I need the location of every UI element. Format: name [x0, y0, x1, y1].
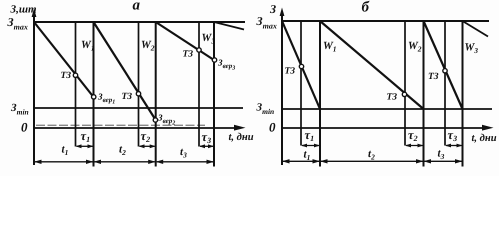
svg-text:0: 0 — [21, 120, 28, 135]
З max level line (panel b) — [282, 20, 489, 22]
t1 dimension arrow (panel a) — [35, 161, 93, 163]
vertical line 2a order point (panel a) — [138, 22, 140, 147]
tau2 dimension arrow (panel a) — [140, 145, 155, 147]
З max level line (panel a) — [34, 21, 245, 23]
consumption diagonal 3 (panel a) — [156, 22, 214, 60]
vertical line 3b delivery jump W3 (panel b) — [462, 21, 464, 167]
node Звер2 circle (panel a) — [153, 118, 157, 122]
З min level line (panel b) — [282, 108, 492, 110]
svg-text:ТЗ: ТЗ — [122, 92, 133, 102]
node Звер1 circle (panel a) — [92, 95, 96, 99]
vertical line 1b delivery jump W1 (panel a) — [93, 22, 95, 167]
tau1 dimension arrow (panel a) — [77, 145, 93, 147]
svg-text:ТЗ: ТЗ — [285, 67, 296, 77]
y-axis arrowhead (panel b) — [280, 8, 285, 17]
x-axis scan doubling dashed line (panel a) — [36, 124, 205, 126]
consumption diagonal 2 (panel b) — [320, 21, 424, 109]
svg-text:б: б — [362, 0, 370, 16]
t2 dimension arrow (panel b) — [321, 160, 423, 162]
y-axis (panel b) — [281, 12, 283, 165]
node ТЗ2 circle (panel b) — [402, 92, 406, 96]
tau3 dimension arrow (panel b) — [446, 145, 462, 147]
consumption diagonal 4 partial (panel b) — [463, 21, 489, 37]
vertical line 2b delivery jump W2 (panel b) — [423, 21, 425, 167]
vertical line 3b delivery jump W3 (panel a) — [213, 22, 215, 167]
svg-text:ТЗ: ТЗ — [428, 72, 439, 82]
node ТЗ3 circle (panel b) — [443, 69, 447, 73]
node ТЗ3 circle (panel a) — [197, 48, 201, 52]
x-axis arrowhead (panel a) — [234, 125, 246, 131]
t2 dimension arrow (panel a) — [95, 161, 155, 163]
svg-text:ТЗ: ТЗ — [387, 93, 398, 103]
vertical line 3a order point (panel b) — [444, 21, 446, 146]
svg-text:ТЗ: ТЗ — [183, 50, 194, 60]
node ТЗ1 circle (panel b) — [299, 64, 303, 68]
svg-text:0: 0 — [269, 120, 276, 135]
vertical line 1a order point (panel a) — [75, 22, 77, 147]
x-axis (panel b) — [282, 127, 486, 129]
vertical line 1a order point (panel b) — [300, 21, 302, 146]
svg-text:З: З — [269, 2, 276, 16]
svg-text:ТЗ: ТЗ — [61, 71, 72, 81]
x-axis arrowhead (panel b) — [482, 125, 494, 131]
x-axis (panel a) — [34, 127, 238, 129]
vertical line 3a order point (panel a) — [198, 22, 200, 147]
t3 dimension arrow (panel b) — [425, 160, 462, 162]
vertical line 2b delivery jump W2 (panel a) — [155, 22, 157, 167]
tau1 dimension arrow (panel b) — [302, 145, 319, 147]
tau3 dimension arrow (panel a) — [200, 145, 213, 147]
З min level line (panel a) — [34, 107, 243, 109]
vertical line 1b delivery jump W1 (panel b) — [319, 21, 321, 167]
vertical line 2a order point (panel b) — [404, 21, 406, 146]
consumption diagonal 2 (panel a) — [94, 22, 156, 120]
y-axis (panel a) — [33, 13, 35, 165]
consumption diagonal 1 (panel b) — [282, 21, 320, 109]
t1 dimension arrow (panel b) — [283, 160, 319, 162]
svg-text:t, дни: t, дни — [472, 133, 497, 144]
consumption diagonal 1 (panel a) — [34, 22, 94, 97]
svg-text:а: а — [133, 0, 141, 14]
node Звер3 circle (panel a) — [212, 58, 216, 62]
svg-text:t, дни: t, дни — [229, 132, 254, 143]
node ТЗ2 circle (panel a) — [136, 92, 140, 96]
t3 dimension arrow (panel a) — [157, 161, 213, 163]
y-axis arrowhead (panel a) — [32, 9, 37, 18]
consumption diagonal 4 partial (panel a) — [214, 22, 244, 30]
node ТЗ1 circle (panel a) — [73, 73, 77, 77]
tau2 dimension arrow (panel b) — [406, 145, 423, 147]
consumption diagonal 3 (panel b) — [424, 21, 463, 109]
